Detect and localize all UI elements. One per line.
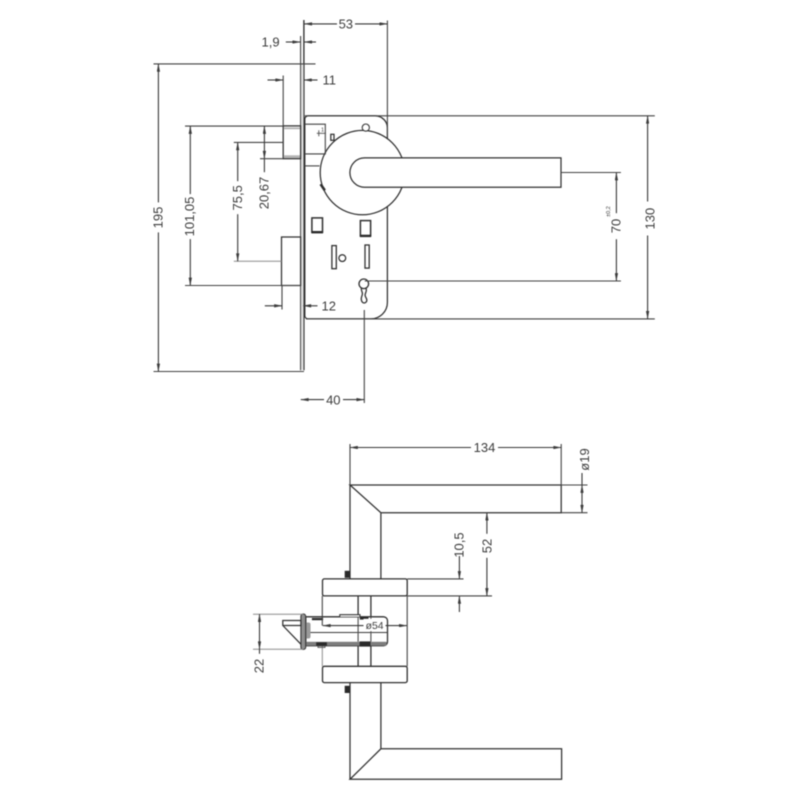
dim 70 ext bottom [365, 280, 621, 282]
dim 40 text [324, 393, 343, 407]
dim 75,5 text [230, 181, 245, 214]
square cutout left thick bottom [311, 231, 323, 233]
dim 22 text [251, 654, 266, 678]
latch case bottom bump below [318, 646, 325, 648]
svg-text:1,9: 1,9 [262, 35, 280, 50]
square cutout left [312, 218, 323, 232]
nub on neck lower [345, 686, 350, 693]
dim 10,5 upper arrow [458, 556, 460, 579]
svg-text:11: 11 [323, 73, 337, 88]
dim 134 text [471, 441, 498, 455]
spindle lower segment [358, 646, 371, 667]
svg-text:52: 52 [479, 539, 494, 553]
svg-text:40: 40 [326, 392, 340, 407]
dim 70 tolerance text [606, 206, 612, 217]
dim 53 ext line right [386, 21, 388, 138]
dim 22 leader [259, 649, 261, 676]
dim ø19 ext bottom [561, 512, 587, 514]
dim 134 ext right [560, 444, 562, 485]
dim 101,05 ext top / latch top line [185, 125, 283, 127]
square cutout right [360, 221, 370, 236]
ø54 ext line left lower [321, 646, 323, 667]
dim ø54 line left segment [323, 625, 365, 627]
ext line 130 bottom [306, 318, 655, 320]
dim 53 text [337, 17, 355, 31]
small hole circle [339, 255, 346, 262]
faceplate right edge line [303, 20, 305, 370]
svg-text:10,5: 10,5 [452, 532, 467, 557]
dim ø19 text [577, 448, 592, 470]
latch block top shading [284, 127, 300, 129]
dim 195 ext bottom [154, 371, 305, 373]
latch spring gray blob [305, 623, 310, 639]
tick mark on rose edge [321, 184, 325, 190]
dim 1,9 right arrow [304, 41, 316, 43]
dim ø19 ext top [561, 484, 587, 486]
latch bolt bevel [283, 626, 301, 644]
svg-text:20,67: 20,67 [257, 177, 272, 210]
lower lever neck left line [349, 683, 351, 780]
dim 70 text [609, 213, 624, 239]
svg-text:53: 53 [339, 17, 353, 32]
ø54 ext line left overlay through case [321, 617, 323, 626]
svg-text:130: 130 [643, 208, 658, 230]
dim 10,5 text [452, 532, 467, 557]
rose disc upper [323, 579, 408, 596]
dim 11 ext line [282, 76, 284, 126]
dim ø54 text [364, 619, 386, 631]
inner lock case rectangle top-left [305, 124, 326, 154]
faceplate left edge line [300, 36, 302, 370]
lower lever top view [350, 749, 562, 780]
rose disc bottom ext line right [407, 595, 492, 597]
dim 53 line [304, 23, 387, 25]
dim 134 line [350, 447, 561, 449]
latch case spindle black square bottom [360, 641, 371, 646]
slot cutout left [332, 246, 336, 269]
latch case body [306, 617, 388, 646]
lever handle bar (front view) [350, 158, 561, 187]
dim 22 ext top [253, 613, 304, 615]
svg-text:ø54: ø54 [366, 621, 384, 632]
dim 75,5 ext bottom [234, 260, 282, 262]
ø54 ext line left segments [321, 596, 323, 626]
dim 20,67 ext bottom [260, 158, 283, 160]
rose disc lower [323, 666, 408, 682]
lower faceplate (edge view) [301, 614, 306, 650]
dim 70 ext top [561, 172, 621, 174]
latch case bottom gray strip [306, 642, 387, 646]
deadbolt block [282, 237, 301, 286]
dim ø19 leader [581, 473, 583, 485]
dim 130 line [647, 116, 649, 319]
latch case top tab [340, 615, 360, 617]
nub on neck upper [345, 571, 350, 578]
tiny square cutout near top [331, 134, 334, 140]
svg-text:70: 70 [609, 219, 624, 233]
inner case short line [305, 165, 320, 167]
screw hole circle on rose [362, 124, 369, 131]
upper lever neck right line [380, 513, 382, 579]
latch case top black dash spindle [360, 617, 369, 620]
dim 22 ext bottom [253, 648, 304, 650]
svg-text:75,5: 75,5 [230, 185, 245, 210]
slot cutout right [365, 245, 369, 268]
svg-text:22: 22 [251, 659, 266, 673]
dim 20,67 text [257, 172, 272, 214]
dim 12 ext line [281, 286, 283, 310]
dim 11 left arrow [268, 79, 284, 81]
dim 101,05 ext bottom [185, 285, 301, 287]
dim 134 ext left [349, 444, 351, 485]
dim 130 text [643, 202, 658, 236]
dim 75,5 ext top [234, 141, 283, 143]
upper lever top view [350, 485, 561, 513]
keyhole circle [359, 279, 369, 289]
ø54 ext line right [406, 596, 408, 666]
dim 20,67 leader below [263, 159, 265, 213]
dim 22 line [259, 614, 261, 649]
dim 11 right arrow [304, 79, 318, 81]
square cutout right thick bottom [360, 235, 371, 237]
svg-text:134: 134 [474, 440, 496, 455]
dim 195 ext top [154, 63, 316, 65]
dim 20,67 line [263, 126, 265, 159]
latch case spindle lines through case [358, 617, 371, 642]
keyhole tail [361, 288, 367, 303]
upper lever neck left line [349, 485, 351, 579]
dim 101,05 text [182, 194, 197, 239]
spindle upper segment [358, 596, 371, 619]
latch case top black dash left [312, 618, 323, 620]
faceplate body shading [301, 64, 303, 370]
dim 52 line [486, 513, 488, 596]
dim 40 ext line [363, 310, 365, 403]
dim ø54 line right segment [385, 625, 407, 627]
dim 101,05 line [189, 126, 191, 285]
latch block bottom shading [284, 155, 300, 158]
tiny dimension 1 [317, 128, 326, 137]
latch bolt bar [283, 621, 301, 626]
rose disc top ext line right upper [407, 578, 463, 580]
dim 70 line [615, 173, 617, 282]
svg-text:±0,2: ±0,2 [606, 206, 612, 217]
dim 195 text [150, 202, 165, 232]
dim 10,5 lower arrow [458, 596, 460, 612]
dim 52 text [479, 534, 494, 558]
svg-text:101,05: 101,05 [182, 197, 197, 237]
lower lever neck right line [380, 683, 382, 749]
latch case bottom black dash left [316, 642, 327, 645]
dim 12 right arrow [303, 305, 317, 307]
rose circle [320, 130, 404, 214]
svg-text:195: 195 [150, 207, 165, 229]
svg-text:12: 12 [322, 298, 336, 313]
ext line 130 top [305, 115, 655, 117]
dim 40 line [301, 399, 365, 401]
dim ø19 line [581, 485, 583, 513]
dim 12 left arrow [265, 305, 282, 307]
latch case mid line [306, 632, 388, 634]
svg-text:ø19: ø19 [577, 448, 592, 470]
dim 195 line [157, 64, 159, 372]
backplate rounded body [305, 116, 388, 319]
dim 1,9 left arrow [286, 41, 301, 43]
svg-text:1: 1 [321, 128, 324, 134]
latch block [283, 126, 300, 159]
dim 75,5 line [237, 142, 239, 261]
